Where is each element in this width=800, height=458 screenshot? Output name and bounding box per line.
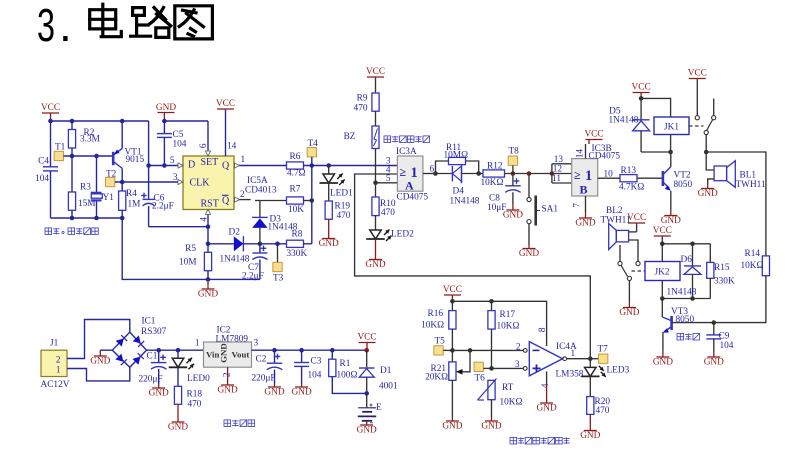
wire VT1 collector to T2 node	[121, 168, 123, 191]
ground GND (R20)	[580, 414, 600, 441]
svg-text:8050: 8050	[674, 180, 693, 190]
capacitor C8 10uF	[487, 174, 521, 213]
svg-text:1: 1	[56, 366, 61, 376]
pad T2	[106, 170, 117, 187]
svg-text:4.7KΩ: 4.7KΩ	[619, 183, 644, 193]
node dot R2 top	[70, 119, 75, 124]
svg-text:GND: GND	[575, 219, 595, 229]
power flag VCC (JK1)	[632, 83, 651, 99]
svg-text:8: 8	[538, 327, 548, 332]
ground GND (C2)	[264, 384, 284, 398]
svg-text:VCC: VCC	[443, 285, 462, 295]
node dot D6 bottom	[690, 296, 695, 301]
wire BL1 feed	[706, 152, 714, 170]
svg-text:GND: GND	[481, 422, 501, 432]
node dot RST-D2 row	[206, 242, 211, 247]
pad T5	[434, 337, 453, 356]
ground GND (C1)	[149, 384, 169, 399]
potentiometer R21	[425, 350, 470, 417]
wire R10 to LED2	[375, 216, 377, 230]
IC U-IC3A CD4075 body	[396, 147, 428, 203]
ground GND (JK2 lever)	[619, 302, 639, 318]
wire GND to SET column	[164, 120, 208, 122]
svg-text:VCC: VCC	[216, 99, 235, 109]
ground GND (R19)	[319, 219, 339, 249]
svg-text:104: 104	[173, 140, 187, 150]
wire J1 pin1 loop	[67, 367, 130, 381]
wire BL2 top terminal	[629, 231, 637, 233]
svg-text:2: 2	[240, 190, 245, 200]
label shake section	[384, 136, 430, 143]
svg-text:GND: GND	[661, 216, 681, 226]
svg-text:104: 104	[35, 174, 49, 184]
ground GND (IC3B)	[575, 212, 595, 229]
svg-text:GND: GND	[704, 358, 724, 368]
svg-text:3: 3	[173, 173, 178, 183]
relay coil JK2	[645, 262, 680, 281]
wire D pin5 net y165.5	[149, 156, 183, 168]
svg-text:470: 470	[337, 211, 351, 221]
node dot C3	[299, 348, 304, 353]
svg-text:LM7809: LM7809	[216, 335, 249, 345]
svg-text:A: A	[405, 179, 414, 193]
node dot D5-JK1 top	[639, 96, 644, 101]
diode D6 1N4148	[667, 244, 702, 299]
node dot BZ-R10-pin5	[373, 181, 378, 186]
svg-text:GND: GND	[219, 343, 229, 363]
svg-text:470: 470	[596, 406, 610, 416]
svg-text:1N4148: 1N4148	[609, 116, 639, 126]
wire R8 right to column	[304, 243, 312, 245]
node dot R17 top	[489, 299, 494, 304]
svg-text:GND: GND	[198, 290, 218, 300]
wire D5 to collector node	[641, 151, 671, 153]
node dot C5-Dpin	[162, 163, 167, 168]
svg-text:1: 1	[195, 339, 200, 349]
node dot Y1-base	[94, 154, 99, 159]
wire IC3B pin7	[573, 196, 586, 212]
svg-text:LED3: LED3	[607, 366, 630, 376]
resistor R19	[325, 183, 351, 221]
svg-text:GND: GND	[580, 431, 600, 441]
resistor R13	[619, 166, 644, 193]
wire D3 column lower	[259, 228, 261, 244]
svg-text:GND: GND	[442, 422, 462, 432]
svg-text:≥: ≥	[574, 168, 581, 182]
wire D2 row from RST node	[208, 243, 234, 245]
transistor VT2 8050	[663, 167, 693, 191]
resistor R1	[329, 350, 358, 380]
svg-text:R9: R9	[357, 94, 368, 104]
svg-text:LM358: LM358	[556, 370, 584, 380]
svg-text:20KΩ: 20KΩ	[425, 373, 448, 383]
resistor R16	[421, 301, 456, 350]
node dot R2-base	[70, 154, 75, 159]
node dot SA1 branch	[527, 171, 532, 176]
resistor R8	[287, 230, 308, 260]
node dot IC3B input bracket	[550, 171, 555, 176]
speaker BL1	[708, 161, 766, 190]
svg-text:4: 4	[386, 166, 391, 176]
svg-text:CD4075: CD4075	[397, 193, 429, 203]
svg-text:2: 2	[516, 343, 521, 353]
ground GND (bridge)	[90, 350, 110, 366]
svg-text:VCC: VCC	[688, 69, 707, 79]
svg-text:470: 470	[354, 104, 368, 114]
wire CLK pin3 marker	[173, 173, 183, 185]
node dot output-LED3	[588, 356, 593, 361]
LED LED2	[366, 230, 414, 242]
svg-text:T3: T3	[273, 274, 284, 284]
relay coil JK1	[654, 117, 689, 135]
resistor R18	[174, 367, 202, 409]
svg-text:VCC: VCC	[357, 333, 376, 343]
svg-text:GND: GND	[156, 103, 176, 113]
node dot R1	[330, 348, 335, 353]
node dot R7 right	[310, 198, 315, 203]
pad T3	[273, 244, 284, 284]
resistor R7	[260, 185, 312, 216]
svg-text:BL2: BL2	[606, 206, 623, 216]
resistor R3	[68, 156, 95, 218]
node dot D6 top	[690, 242, 695, 247]
wire IC3B pin10 to R13	[598, 170, 620, 180]
svg-text:GND: GND	[168, 423, 188, 433]
pad T1	[54, 143, 66, 161]
capacitor C5	[157, 121, 187, 166]
transistor VT3 8050	[662, 299, 694, 333]
svg-text:R15: R15	[714, 263, 730, 273]
resistor R2	[68, 121, 99, 156]
svg-text:R8: R8	[292, 230, 303, 240]
svg-text:GND: GND	[264, 388, 284, 398]
svg-text:14: 14	[576, 149, 586, 159]
label fault-2	[677, 333, 700, 340]
wire C4 column lower	[50, 171, 52, 218]
svg-text:1M: 1M	[128, 200, 141, 210]
node dot D4 right	[476, 171, 481, 176]
svg-text:D6: D6	[681, 255, 693, 265]
svg-text:10KΩ: 10KΩ	[741, 261, 764, 271]
svg-text:10KΩ: 10KΩ	[497, 322, 520, 332]
wire JK1 bottom	[670, 135, 672, 153]
wire base net y156	[64, 155, 114, 157]
svg-text:Vin: Vin	[206, 350, 219, 360]
power flag VCC (9V out)	[357, 333, 376, 351]
svg-text:CD4075: CD4075	[589, 152, 621, 162]
svg-text:VT2: VT2	[674, 171, 691, 181]
wire VT3 emitter to gnd	[662, 332, 664, 351]
svg-text:VCC: VCC	[41, 103, 60, 113]
node dot T5-R16-R21	[450, 348, 455, 353]
svg-text:10K: 10K	[288, 205, 304, 215]
wire Q pin1 to R6	[234, 155, 287, 168]
svg-text:VCC: VCC	[584, 130, 603, 140]
wire D2 to C7 node	[243, 243, 260, 245]
wire C6 column	[148, 121, 150, 199]
svg-text:GND: GND	[653, 358, 673, 368]
node dot C2	[272, 348, 277, 353]
node dot C1	[156, 348, 161, 353]
bridge rectifier IC1 RS307	[112, 317, 166, 368]
diode D1 4001	[359, 350, 398, 393]
svg-text:GND: GND	[319, 239, 339, 249]
title hanzi dian-lu-tu	[90, 4, 213, 39]
ground GND (R18)	[168, 404, 188, 432]
ground GND (C8)	[503, 204, 523, 221]
pad T7	[598, 345, 609, 364]
ground GND (IC2)	[218, 381, 238, 396]
svg-text:T4: T4	[308, 139, 319, 149]
svg-text:6: 6	[199, 143, 209, 148]
power flag VCC (IC3B pin14)	[576, 130, 604, 159]
node dot JK2 top	[660, 242, 665, 247]
op-amp IC4A LM358	[515, 327, 584, 388]
wire 9V rail	[252, 349, 367, 351]
wire C4 column upper	[50, 121, 52, 167]
svg-text:10KΩ: 10KΩ	[481, 178, 504, 188]
svg-text:Q: Q	[222, 161, 230, 172]
node dot T6-R17-RT	[489, 366, 494, 371]
svg-text:B: B	[580, 183, 588, 197]
svg-text:.: .	[59, 0, 72, 51]
svg-text:IC5A: IC5A	[247, 176, 268, 186]
wire R6 to IC3A pin3	[304, 165, 398, 167]
svg-text:CLK: CLK	[190, 178, 211, 189]
svg-text:1: 1	[241, 155, 246, 165]
resistor R6	[287, 152, 306, 179]
svg-text:10KΩ: 10KΩ	[500, 398, 523, 408]
svg-text:R5: R5	[185, 244, 196, 254]
svg-text:Q: Q	[222, 196, 230, 207]
wire BL2 bottom terminal	[629, 240, 638, 261]
diode D4 1N4148	[436, 164, 480, 207]
wire noninverting input net	[492, 367, 524, 369]
svg-text:D2: D2	[229, 228, 241, 238]
power flag VCC (JK2)	[653, 226, 672, 244]
wire pin14 column	[226, 110, 237, 156]
ground GND (VT2)	[661, 211, 681, 226]
node dot Y1 bottom	[94, 216, 99, 221]
svg-text:GND: GND	[90, 357, 110, 367]
svg-text:R6: R6	[290, 152, 301, 162]
svg-text:8050: 8050	[676, 315, 695, 325]
title text 3.	[37, 0, 72, 51]
svg-text:T5: T5	[435, 337, 446, 347]
node dot VCC out	[364, 348, 369, 353]
switch SA1	[527, 174, 558, 246]
node dot C9 top	[712, 320, 717, 325]
wire R14 to VT3 base	[672, 276, 766, 323]
power flag VCC (CD4013 pin14)	[216, 99, 235, 110]
svg-text:R16: R16	[428, 309, 444, 319]
node dot R5 bottom rail	[206, 277, 211, 282]
svg-text:4.7Ω: 4.7Ω	[287, 169, 306, 179]
wire VCC row to R15	[662, 243, 710, 245]
svg-text:1: 1	[571, 349, 576, 359]
svg-text:RST: RST	[201, 199, 219, 210]
svg-text:AC12V: AC12V	[41, 380, 70, 390]
svg-text:SET: SET	[201, 157, 219, 168]
wire IC3A pin6 out	[423, 165, 436, 175]
svg-text:10: 10	[604, 170, 614, 180]
capacitor C7 2.2uF	[242, 244, 267, 282]
svg-text:T7: T7	[598, 345, 609, 355]
svg-text:C9: C9	[719, 332, 730, 342]
svg-text:GND: GND	[149, 389, 169, 399]
node dot T4 junction	[310, 163, 315, 168]
svg-text:4: 4	[200, 217, 210, 222]
svg-text:470: 470	[381, 208, 395, 218]
relay contact JK2 switch	[618, 245, 645, 302]
svg-text:T1: T1	[55, 143, 66, 153]
node dot VCC-C4	[48, 119, 53, 124]
wire VCC rail y121	[51, 120, 149, 122]
svg-text:11: 11	[552, 174, 561, 184]
capacitor C2 220uF	[252, 350, 283, 383]
svg-text:R18: R18	[187, 390, 203, 400]
wire C6 to RST net	[149, 226, 208, 228]
wire VT3 collector row	[662, 298, 710, 300]
wire to R12	[479, 173, 483, 175]
pad T6	[474, 362, 491, 383]
GND flag (C5 top)	[156, 103, 176, 121]
svg-text:R7: R7	[290, 185, 301, 195]
svg-text:IC3A: IC3A	[396, 147, 417, 157]
svg-text:R3: R3	[80, 183, 91, 193]
svg-text:13: 13	[554, 155, 564, 165]
label flame section	[510, 437, 570, 444]
wire IC4A output	[567, 349, 599, 359]
power flag VCC (relay contact)	[688, 69, 707, 116]
wire inverting input net	[452, 349, 523, 351]
svg-text:C2: C2	[256, 355, 267, 365]
IC U-IC5A CD4013 body	[183, 156, 277, 210]
label touch section	[45, 228, 98, 235]
svg-text:1N4148: 1N4148	[220, 255, 250, 265]
svg-text:R19: R19	[335, 202, 351, 212]
wire R1 to battery node	[332, 377, 366, 394]
svg-text:C5: C5	[173, 130, 184, 140]
LED LED0	[169, 350, 210, 384]
svg-text:220μF: 220μF	[252, 374, 276, 384]
svg-text:VCC: VCC	[632, 83, 651, 93]
wire IC2 pin2 gnd	[227, 367, 229, 381]
svg-text:2: 2	[56, 356, 61, 366]
svg-text:4001: 4001	[379, 382, 398, 392]
diode D5 1N4148	[609, 98, 650, 152]
battery E	[358, 393, 382, 422]
resistor R4	[119, 189, 141, 218]
svg-text:C4: C4	[38, 157, 49, 167]
diode D2 1N4148	[220, 228, 250, 265]
svg-text:GND: GND	[218, 386, 238, 396]
svg-text:LED0: LED0	[187, 374, 210, 384]
node dot JK1-VT2	[668, 150, 673, 155]
wire IC3A pin3 label	[386, 157, 391, 167]
ground GND (LED2)	[365, 239, 385, 270]
svg-text:GND: GND	[619, 308, 639, 318]
wire JK2 coil bottom	[661, 281, 663, 299]
svg-text:RT: RT	[502, 383, 514, 393]
resistor R17	[488, 301, 520, 368]
resistor R14	[741, 249, 770, 276]
ground GND (SA1)	[519, 245, 539, 259]
wire bridge plus rail	[147, 349, 204, 351]
node dot GND-C5	[162, 119, 167, 124]
svg-text:330K: 330K	[714, 277, 735, 287]
ground GND (C3)	[292, 384, 312, 398]
svg-text:RS307: RS307	[141, 327, 167, 337]
transistor VT1 9015	[113, 121, 144, 168]
speaker BL2	[601, 206, 631, 250]
ground GND (RT)	[481, 417, 501, 432]
wire BZ to pin5 node	[375, 149, 377, 183]
wire contact node to right column	[706, 152, 766, 256]
wire JK2 coil top	[661, 244, 663, 262]
svg-text:10M: 10M	[179, 258, 197, 268]
svg-text:R1: R1	[340, 359, 351, 369]
resistor R15	[707, 244, 735, 299]
ground GND (BL1)	[698, 184, 718, 199]
connector J1	[41, 339, 70, 391]
node dot battery	[364, 391, 369, 396]
wire T2 to CLK net	[115, 181, 183, 183]
svg-text:12: 12	[553, 165, 563, 175]
node dot contact-BL1	[704, 150, 709, 155]
svg-text:104: 104	[308, 371, 322, 381]
crystal Y1	[91, 156, 114, 218]
capacitor C1 220uF	[139, 350, 167, 384]
wire IC3A pin5 stub	[376, 174, 398, 184]
ground GND (VT3)	[653, 351, 673, 368]
svg-text:9015: 9015	[126, 155, 145, 165]
svg-text:IC1: IC1	[142, 317, 156, 327]
svg-text:BZ: BZ	[344, 132, 356, 142]
wire VT2 collector	[670, 152, 672, 167]
IC U-IC3B CD4075 body	[572, 144, 621, 197]
svg-text:10MΩ: 10MΩ	[444, 151, 469, 161]
node dot pin6	[433, 171, 438, 176]
capacitor C6 2.2uF	[141, 193, 174, 227]
svg-text:2.2μF: 2.2μF	[242, 272, 264, 282]
ground GND (R21)	[442, 417, 462, 432]
svg-text:R14: R14	[745, 249, 761, 259]
svg-text:JK1: JK1	[664, 123, 679, 133]
node dot wiper branch	[468, 348, 473, 353]
svg-text:D1: D1	[380, 366, 392, 376]
node dot T3 junction	[275, 242, 280, 247]
svg-text:470: 470	[188, 400, 202, 410]
resistor R10	[372, 183, 396, 218]
wire R11 bypass right	[466, 161, 479, 174]
wire R9 to BZ	[375, 111, 377, 126]
svg-text:≥: ≥	[400, 165, 407, 179]
svg-text:220μF: 220μF	[139, 375, 163, 385]
LED LED3	[581, 359, 630, 377]
wire VT3 base stub	[671, 322, 674, 324]
svg-text:E: E	[376, 403, 382, 413]
node dot LED0	[176, 348, 181, 353]
svg-text:100Ω: 100Ω	[337, 371, 358, 381]
svg-text:2.2μF: 2.2μF	[152, 202, 174, 212]
svg-text:1N4148: 1N4148	[450, 197, 480, 207]
svg-text:VCC: VCC	[653, 226, 672, 236]
node dot D3-C7	[258, 242, 263, 247]
diode D3 1N4148	[252, 215, 298, 233]
wire bridge minus to gnd	[100, 349, 112, 351]
svg-text:GND: GND	[537, 404, 557, 414]
